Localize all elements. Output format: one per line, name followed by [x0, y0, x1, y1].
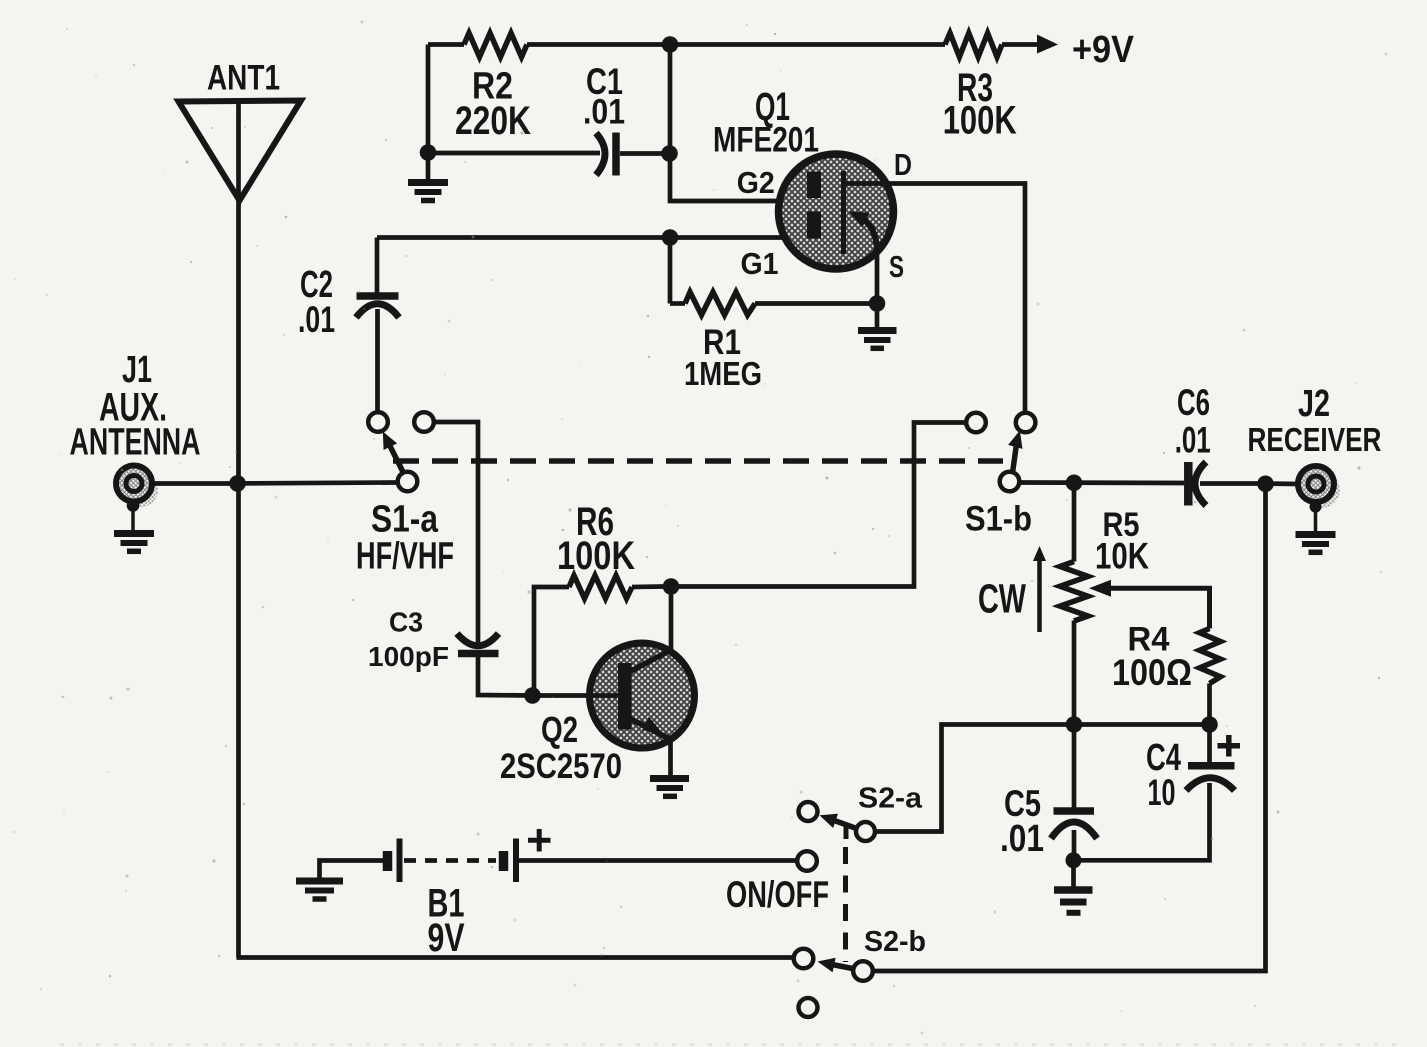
wire J1 to main vertical: [152, 481, 233, 486]
wire y153 to C1: [428, 151, 600, 156]
svg-text:ANTENNA: ANTENNA: [70, 422, 201, 464]
svg-text:9V: 9V: [428, 916, 465, 960]
svg-text:G1: G1: [741, 246, 779, 281]
wire +9V top rail: [428, 42, 1040, 47]
switch S2-a: [799, 802, 876, 841]
ground under R2: [408, 183, 448, 201]
antenna ANT1: [179, 101, 302, 201]
svg-text:HF/VHF: HF/VHF: [356, 536, 454, 578]
wire S2-a feed rail: [876, 725, 1210, 832]
svg-text:2SC2570: 2SC2570: [500, 747, 622, 786]
svg-text:S1-b: S1-b: [965, 500, 1032, 539]
svg-text:100Ω: 100Ω: [1112, 652, 1192, 693]
switch S1-a: [368, 412, 434, 491]
svg-text:C6: C6: [1177, 382, 1210, 423]
wire Q1 drain: [844, 184, 1026, 413]
svg-text:220K: 220K: [455, 99, 531, 143]
svg-text:.01: .01: [583, 93, 625, 132]
node R6 / Q2 collector junction: [663, 578, 680, 595]
node J1 stub dot: [127, 499, 140, 512]
wire antenna vertical down left side: [236, 101, 241, 958]
transistor Q2 2SC2570: [540, 587, 695, 776]
ground under Q1 source: [858, 331, 897, 349]
node C3 / Q2 base junction: [524, 687, 541, 704]
resistor R1: [670, 292, 877, 315]
svg-text:.01: .01: [1000, 818, 1044, 860]
svg-text:ON/OFF: ON/OFF: [726, 874, 829, 915]
svg-text:10K: 10K: [1095, 536, 1149, 577]
node G1 / R1 junction: [662, 229, 679, 246]
node J1 / ANT1 junction: [229, 475, 246, 492]
capacitor C3: [457, 634, 531, 696]
switch S2-b: [794, 949, 873, 1017]
ground under J2: [1296, 535, 1336, 553]
node C5 / C4 ground junction: [1066, 852, 1082, 868]
node +9V rail / C1 junction: [662, 36, 679, 53]
node C1 output junction: [661, 145, 678, 162]
wire C6 to J2: [1257, 481, 1298, 486]
ground under C5: [1054, 890, 1093, 913]
wire bottom rail to S2-b: [237, 955, 794, 960]
svg-text:S2-b: S2-b: [864, 926, 926, 958]
node R4 / C4 junction: [1201, 716, 1218, 733]
resistor R6: [533, 576, 664, 696]
svg-text:D: D: [894, 147, 912, 182]
capacitor C2: [356, 238, 399, 413]
node Q1 source / R1 junction: [869, 295, 886, 312]
node J2 junction: [1257, 476, 1274, 493]
svg-text:ANT1: ANT1: [207, 58, 280, 97]
ground under Q2 emitter: [650, 779, 689, 797]
svg-text:MFE201: MFE201: [713, 120, 819, 159]
svg-text:J2: J2: [1298, 383, 1330, 425]
capacitor C4: [1074, 725, 1241, 861]
ground under B1: [296, 881, 343, 899]
resistor R4: [1200, 629, 1221, 725]
wire J1 rail to S1-a: [237, 480, 398, 486]
svg-text:100K: 100K: [557, 534, 635, 578]
wire J1 ground stub: [131, 506, 135, 531]
transistor Q1 MFE201: [779, 154, 894, 269]
svg-text:100pF: 100pF: [368, 641, 449, 672]
svg-text:100K: 100K: [943, 99, 1017, 143]
ground under J1: [114, 534, 154, 552]
resistor R3: [945, 33, 1002, 57]
svg-text:S: S: [889, 249, 904, 284]
wire R6 junction to S1-b: [671, 423, 966, 587]
wire Q1 source to ground: [875, 252, 880, 327]
svg-text:Q2: Q2: [541, 709, 578, 750]
connector J2: [1298, 466, 1340, 508]
wire x670 vertical and G2 feed: [670, 45, 807, 202]
node R5 / C5 junction: [1066, 716, 1083, 733]
node J2 stub dot: [1310, 501, 1322, 513]
svg-text:+9V: +9V: [1072, 29, 1135, 71]
svg-text:S1-a: S1-a: [371, 499, 439, 541]
wire G1 down to R1: [668, 238, 673, 304]
svg-text:CW: CW: [978, 576, 1026, 622]
switch contact ON/OFF: [797, 851, 817, 871]
capacitor C1: [596, 133, 662, 176]
wire S1-b to C6: [1019, 480, 1184, 485]
dashed link S2: [843, 824, 849, 963]
svg-text:10: 10: [1148, 772, 1176, 813]
wire J2 ground stub: [1314, 507, 1318, 531]
arrow CW: [1033, 546, 1046, 632]
svg-text:G2: G2: [737, 165, 775, 200]
capacitor C6: [1188, 462, 1257, 506]
node R2 ground junction: [420, 144, 437, 161]
capacitor C5: [1051, 725, 1097, 858]
wire J2 node down right side: [873, 484, 1266, 971]
node S1-b / R5 junction: [1066, 475, 1083, 492]
svg-text:S2-a: S2-a: [858, 783, 923, 815]
svg-text:RECEIVER: RECEIVER: [1248, 421, 1382, 458]
switch S1-b: [966, 413, 1035, 492]
svg-text:1MEG: 1MEG: [684, 355, 762, 392]
potentiometer R5: [1060, 483, 1210, 725]
connector J1: [116, 466, 158, 508]
wire C5 ground stub: [1071, 860, 1076, 886]
svg-text:.01: .01: [1175, 420, 1211, 461]
resistor R2: [464, 33, 527, 57]
arrowhead +9V: [1037, 35, 1058, 54]
wire R2 left leg: [426, 45, 431, 180]
svg-text:.01: .01: [298, 299, 335, 340]
battery B1: [320, 829, 798, 882]
svg-text:C3: C3: [389, 607, 423, 638]
dashed link S1: [393, 458, 1003, 464]
wire S1-a upper contact to C3: [434, 422, 478, 645]
wire G1 rail: [377, 235, 807, 240]
